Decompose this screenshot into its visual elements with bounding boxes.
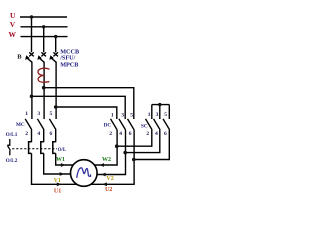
svg-text:U2: U2 (105, 187, 112, 193)
svg-text:V: V (10, 20, 16, 29)
svg-text:5: 5 (164, 112, 167, 118)
svg-text:6: 6 (129, 131, 132, 137)
svg-text:2: 2 (25, 131, 28, 137)
svg-text:6: 6 (164, 131, 167, 137)
svg-text:W1: W1 (56, 157, 65, 163)
svg-text:V1: V1 (54, 178, 61, 184)
svg-text:DC: DC (104, 123, 112, 129)
svg-text:U1: U1 (54, 189, 61, 195)
svg-text:3: 3 (156, 112, 159, 118)
svg-text:4: 4 (119, 131, 122, 137)
svg-text:4: 4 (155, 131, 158, 137)
svg-text:2: 2 (146, 131, 149, 137)
svg-text:5: 5 (50, 111, 53, 117)
svg-text:1: 1 (25, 111, 28, 117)
svg-text:B: B (17, 54, 22, 61)
svg-text:MC: MC (16, 122, 25, 128)
svg-text:O/L2: O/L2 (6, 158, 18, 164)
svg-text:1: 1 (148, 112, 151, 118)
svg-text:3: 3 (121, 112, 124, 118)
svg-text:5: 5 (130, 112, 133, 118)
svg-text:1: 1 (111, 112, 114, 118)
svg-text:W2: W2 (102, 157, 111, 163)
svg-text:U: U (10, 11, 16, 20)
svg-text:O/L: O/L (58, 148, 67, 153)
svg-text:SC: SC (141, 124, 148, 130)
svg-text:2: 2 (109, 131, 112, 137)
svg-text:W: W (9, 30, 17, 39)
svg-text:V2: V2 (106, 176, 113, 182)
svg-text:3: 3 (37, 111, 40, 117)
svg-text:4: 4 (37, 131, 40, 137)
svg-text:O/L1: O/L1 (6, 132, 18, 138)
svg-text:MPCB: MPCB (60, 61, 78, 68)
svg-text:6: 6 (50, 131, 53, 137)
